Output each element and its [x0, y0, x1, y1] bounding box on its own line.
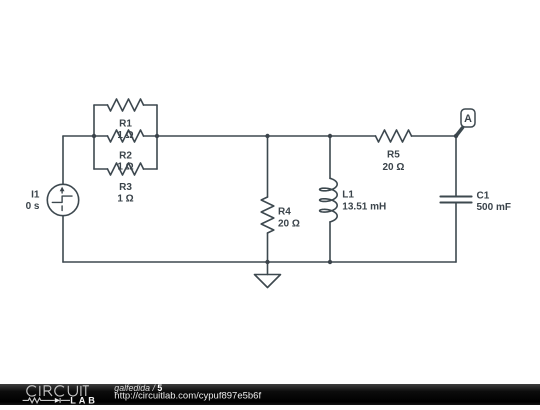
svg-text:500 mF: 500 mF	[477, 202, 511, 213]
svg-text:R1: R1	[119, 119, 132, 130]
svg-text:20 Ω: 20 Ω	[382, 162, 404, 173]
svg-text:R3: R3	[119, 182, 132, 193]
svg-text:A: A	[464, 113, 472, 125]
svg-text:1 Ω: 1 Ω	[117, 130, 133, 141]
svg-text:http://circuitlab.com/cypuf897: http://circuitlab.com/cypuf897e5b6f	[114, 390, 261, 401]
svg-text:20 Ω: 20 Ω	[278, 218, 300, 229]
svg-text:C1: C1	[477, 190, 490, 201]
svg-text:13.51 mH: 13.51 mH	[342, 201, 386, 212]
svg-text:1 Ω: 1 Ω	[117, 193, 133, 204]
svg-text:R4: R4	[278, 206, 291, 217]
svg-text:1 Ω: 1 Ω	[117, 162, 133, 173]
svg-text:R5: R5	[387, 150, 400, 161]
svg-text:0 s: 0 s	[26, 201, 40, 212]
svg-text:R2: R2	[119, 150, 132, 161]
svg-text:I1: I1	[31, 189, 40, 200]
svg-text:L1: L1	[342, 190, 354, 201]
svg-text:LAB: LAB	[70, 396, 95, 405]
